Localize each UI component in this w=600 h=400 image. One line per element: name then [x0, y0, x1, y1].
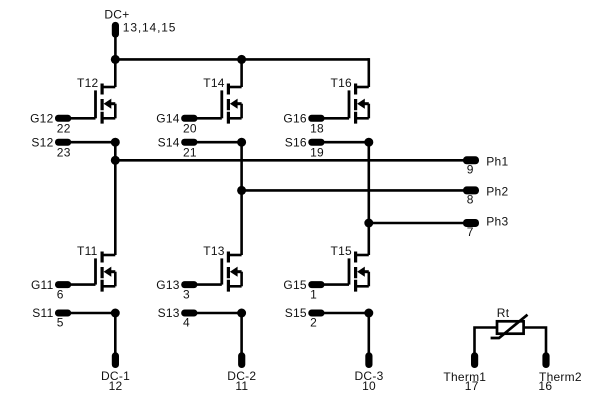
- svg-text:23: 23: [57, 145, 71, 159]
- svg-text:8: 8: [467, 193, 474, 207]
- terminal Ph1: [463, 156, 479, 164]
- svg-text:20: 20: [183, 122, 197, 136]
- wire G15 lead: [322, 283, 349, 286]
- svg-text:3: 3: [183, 288, 190, 302]
- svg-text:2: 2: [310, 315, 317, 329]
- wire DC-2 lead: [240, 313, 243, 353]
- junction S11 node: [111, 309, 120, 318]
- transistor T14: [222, 84, 242, 124]
- wire S15 lead: [322, 312, 369, 315]
- svg-text:G13: G13: [156, 278, 180, 292]
- svg-text:S15: S15: [285, 306, 307, 320]
- svg-text:5: 5: [57, 315, 64, 329]
- wire T15 drain: [367, 223, 370, 255]
- svg-text:Rt: Rt: [497, 306, 510, 320]
- svg-text:DC+: DC+: [104, 7, 129, 21]
- terminal Ph2: [463, 186, 479, 194]
- transistor T12: [96, 84, 116, 124]
- svg-text:T13: T13: [203, 244, 225, 258]
- svg-text:Ph2: Ph2: [486, 184, 508, 198]
- terminal S15: [308, 310, 324, 317]
- wire Ph3: [369, 222, 464, 225]
- terminal S14: [181, 139, 197, 146]
- terminal Ph3: [463, 219, 479, 227]
- wire Rt right lead: [524, 328, 546, 353]
- svg-text:12: 12: [109, 379, 123, 393]
- node Ph2 junction: [237, 186, 246, 195]
- terminal G15: [308, 281, 324, 288]
- svg-text:Ph3: Ph3: [486, 215, 508, 229]
- wire S12 lead: [69, 141, 115, 144]
- svg-text:4: 4: [183, 315, 190, 329]
- wire T14 drain: [240, 58, 243, 87]
- thermistor Rt: [491, 315, 528, 338]
- svg-text:16: 16: [538, 379, 552, 393]
- svg-text:S11: S11: [32, 306, 53, 320]
- svg-text:S13: S13: [158, 306, 180, 320]
- svg-text:G16: G16: [283, 112, 307, 126]
- svg-text:10: 10: [362, 379, 376, 393]
- junction S12 node: [111, 138, 120, 147]
- wire col1 to Ph1: [114, 142, 117, 160]
- svg-text:T11: T11: [77, 244, 98, 258]
- svg-text:S16: S16: [285, 135, 307, 149]
- wire S13 lead: [195, 312, 241, 315]
- wire DC-1 lead: [114, 313, 117, 353]
- transistor T15: [349, 252, 369, 292]
- svg-text:G14: G14: [156, 112, 180, 126]
- terminal S16: [308, 139, 324, 146]
- wire T11 drain: [114, 160, 117, 255]
- terminal DC-3: [365, 352, 372, 368]
- svg-text:Ph1: Ph1: [486, 154, 508, 168]
- wire Ph2: [242, 189, 464, 192]
- terminal Therm2: [542, 352, 549, 368]
- wire S16 lead: [322, 141, 369, 144]
- svg-text:22: 22: [57, 122, 71, 136]
- terminal G14: [181, 115, 197, 122]
- node Ph3 junction: [364, 219, 373, 228]
- terminal G11: [55, 281, 71, 288]
- svg-text:13,14,15: 13,14,15: [123, 21, 177, 35]
- transistor T16: [349, 84, 369, 124]
- svg-text:9: 9: [467, 163, 474, 177]
- terminal G13: [181, 281, 197, 288]
- terminal G16: [308, 115, 324, 122]
- wire T12 drain: [114, 58, 117, 87]
- svg-text:G12: G12: [30, 112, 54, 126]
- wire Ph1: [115, 159, 464, 162]
- svg-text:1: 1: [310, 288, 317, 302]
- transistor T13: [222, 252, 242, 292]
- wire col2 to Ph2: [240, 142, 243, 190]
- junction S14 node: [237, 138, 246, 147]
- svg-text:S12: S12: [31, 135, 53, 149]
- wire S11 lead: [69, 312, 115, 315]
- wire T16 drain: [367, 58, 370, 87]
- svg-text:T15: T15: [331, 244, 353, 258]
- svg-text:18: 18: [310, 122, 324, 136]
- junction rail col2: [237, 55, 246, 64]
- terminal DC-2: [238, 352, 245, 368]
- terminal DC-1: [112, 352, 119, 368]
- svg-text:T14: T14: [203, 76, 225, 90]
- wire S14 lead: [195, 141, 241, 144]
- terminal S11: [55, 310, 71, 317]
- transistor T11: [96, 252, 116, 292]
- junction rail col1: [111, 55, 120, 64]
- wire DC-3 lead: [367, 313, 370, 353]
- svg-text:19: 19: [310, 145, 324, 159]
- svg-text:7: 7: [467, 225, 474, 239]
- svg-text:6: 6: [57, 288, 64, 302]
- svg-text:11: 11: [235, 379, 248, 393]
- wire G16 lead: [322, 117, 349, 120]
- terminal Therm1: [471, 352, 478, 368]
- wire G13 lead: [195, 283, 222, 286]
- wire G14 lead: [195, 117, 222, 120]
- svg-text:17: 17: [465, 379, 479, 393]
- wire DC+ rail: [115, 58, 368, 61]
- terminal DC+: [112, 22, 119, 38]
- wire col3 to Ph3: [367, 142, 370, 223]
- junction S15 node: [364, 309, 373, 318]
- wire G11 lead: [69, 283, 96, 286]
- wire T13 drain: [240, 190, 243, 255]
- svg-text:T16: T16: [331, 76, 353, 90]
- svg-text:T12: T12: [77, 76, 99, 90]
- wire DC+ lead: [114, 36, 117, 59]
- junction S13 node: [237, 309, 246, 318]
- terminal S12: [55, 139, 71, 146]
- terminal G12: [55, 115, 71, 122]
- node Ph1 junction: [111, 156, 120, 165]
- svg-text:G11: G11: [31, 278, 54, 292]
- svg-text:G15: G15: [283, 278, 307, 292]
- svg-text:21: 21: [183, 145, 197, 159]
- wire Rt left lead: [475, 328, 498, 353]
- junction S16 node: [364, 138, 373, 147]
- svg-text:S14: S14: [158, 135, 180, 149]
- wire G12 lead: [69, 117, 96, 120]
- terminal S13: [181, 310, 197, 317]
